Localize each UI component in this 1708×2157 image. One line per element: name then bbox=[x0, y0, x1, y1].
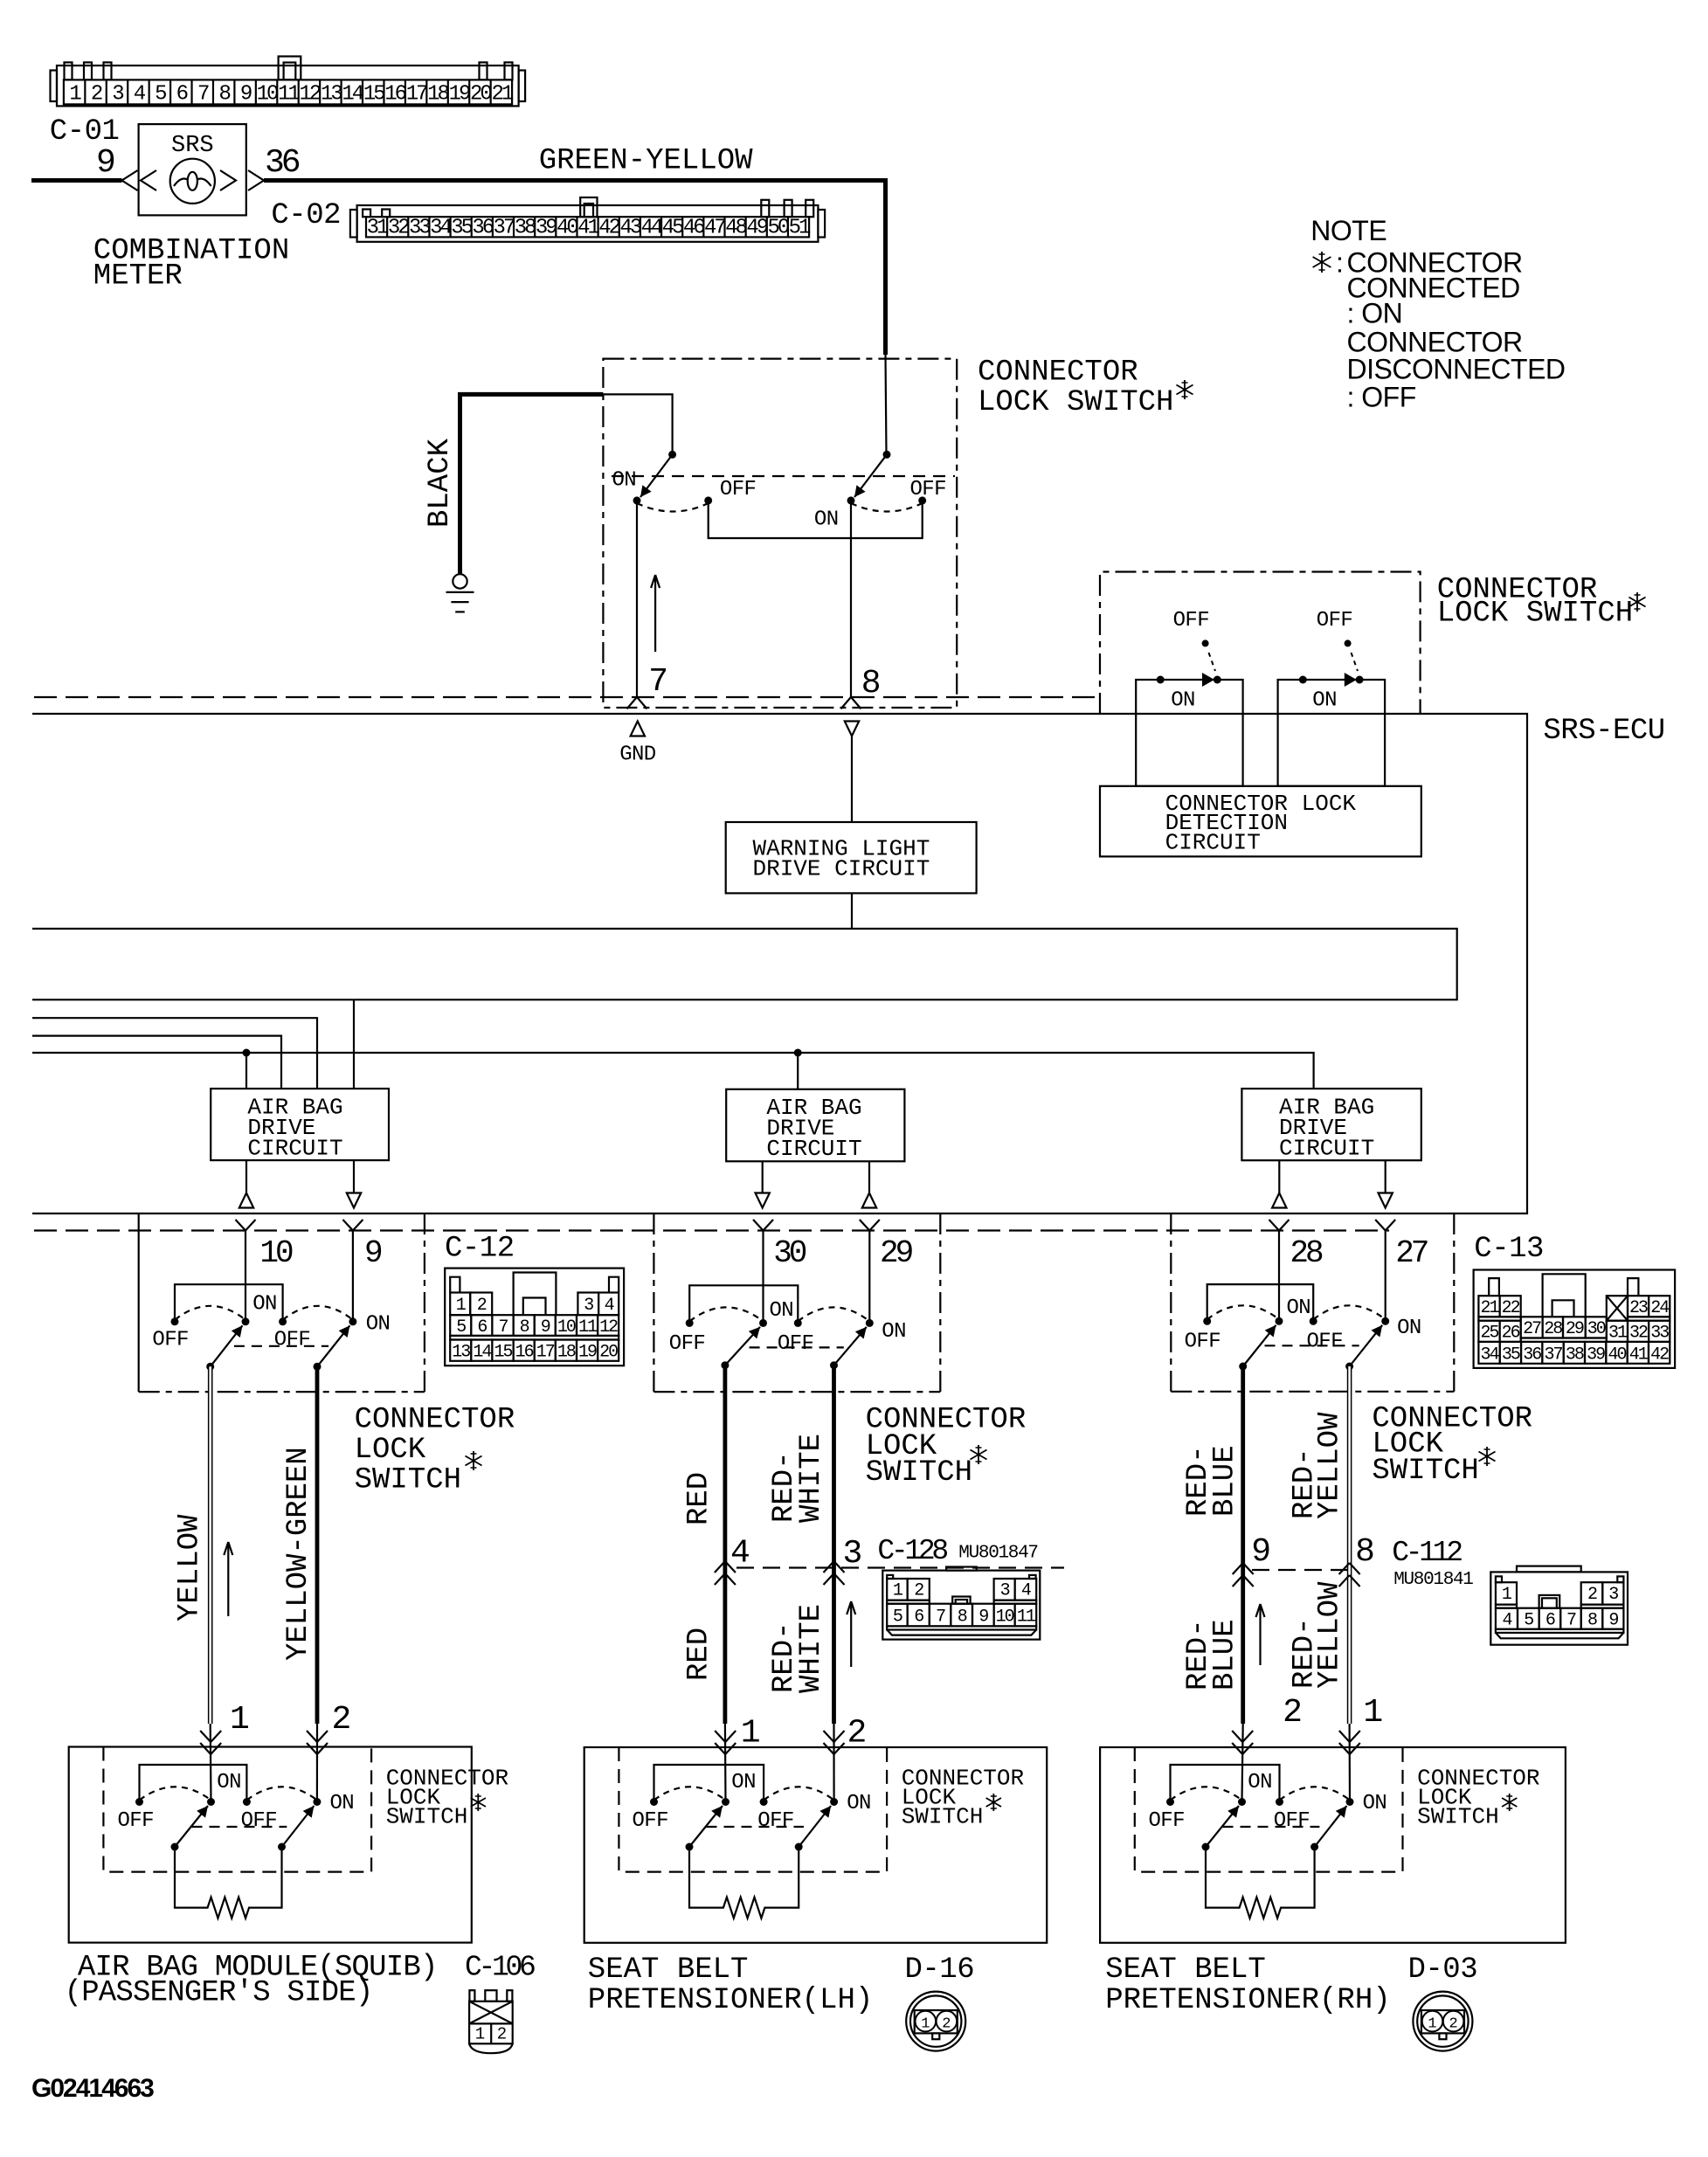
svg-text:1: 1 bbox=[1363, 1694, 1383, 1732]
svg-text:C-13: C-13 bbox=[1474, 1233, 1544, 1266]
pin 28 fork (SRS-ECU bottom) bbox=[1269, 1220, 1280, 1231]
pin 9 fork (SRS-ECU bottom) bbox=[342, 1220, 353, 1231]
OFF contact dots (C-128) bbox=[686, 1319, 694, 1327]
switch ON contact pin7 side bbox=[633, 496, 641, 504]
svg-text:2: 2 bbox=[477, 1296, 487, 1316]
svg-text:20: 20 bbox=[599, 1343, 618, 1363]
svg-text:22: 22 bbox=[1502, 1298, 1520, 1318]
svg-text:17: 17 bbox=[536, 1343, 555, 1363]
direction arrow (C-128 column) bbox=[850, 1601, 852, 1667]
switch contact (pin7 side) upper dot bbox=[668, 451, 676, 459]
OFF contact 1 (air bag module squib) bbox=[135, 1798, 143, 1806]
air bag drive circuit box 2 bbox=[726, 1089, 904, 1162]
svg-text:SEAT BELT: SEAT BELT bbox=[1105, 1953, 1266, 1987]
dashed arc 2 (air bag module squib) bbox=[246, 1787, 317, 1800]
svg-text:2: 2 bbox=[914, 1581, 923, 1601]
asterisk (top middle lock switch) bbox=[1184, 380, 1186, 399]
bus band bbox=[32, 929, 1457, 999]
svg-text:LOCK: LOCK bbox=[355, 1434, 426, 1467]
svg-text:10: 10 bbox=[996, 1607, 1014, 1628]
svg-text:C-128: C-128 bbox=[877, 1535, 947, 1567]
svg-text:7: 7 bbox=[936, 1607, 945, 1628]
break chevrons wire RED-YELLOW at C-112 bbox=[1339, 1563, 1350, 1574]
wire RED-BLUE thin tail bbox=[1242, 1724, 1243, 1802]
triangle GND marker bbox=[631, 722, 645, 736]
switch blade 1 (seat belt pretensioner LH) bbox=[686, 1843, 694, 1851]
svg-text:42: 42 bbox=[1650, 1345, 1669, 1365]
wire linking OFF contacts (C-12) bbox=[175, 1284, 283, 1322]
switch blade 2 (C-12) bbox=[314, 1363, 322, 1371]
svg-text:OFF: OFF bbox=[669, 1332, 705, 1356]
air bag 1 output left (triangle up) bbox=[245, 1160, 247, 1193]
svg-text:ON: ON bbox=[1248, 1771, 1272, 1794]
svg-text:3: 3 bbox=[584, 1296, 593, 1316]
svg-text:RED: RED bbox=[683, 1628, 716, 1681]
switch blade 2 (seat belt pretensioner RH) bbox=[1310, 1843, 1318, 1851]
svg-text:OFF: OFF bbox=[1307, 1331, 1343, 1354]
arrowheads wire RED-YELLOW into pretensioner RH bbox=[1339, 1731, 1350, 1742]
svg-text:16: 16 bbox=[384, 83, 405, 107]
svg-text:DISCONNECTED: DISCONNECTED bbox=[1347, 354, 1566, 385]
wire pin to ON contact 2 (C-12) bbox=[352, 1231, 354, 1322]
svg-text:OFF: OFF bbox=[152, 1329, 188, 1352]
svg-text:27: 27 bbox=[1523, 1319, 1541, 1339]
svg-text:3: 3 bbox=[1608, 1585, 1618, 1605]
switch blade 2 (C-13) bbox=[1345, 1363, 1353, 1371]
OFF contact 2 (air bag module squib) bbox=[243, 1798, 251, 1806]
svg-text:8: 8 bbox=[1355, 1533, 1375, 1571]
pin 8 fork bbox=[841, 697, 852, 709]
svg-text:ON: ON bbox=[770, 1299, 794, 1323]
svg-text:PRETENSIONER(RH): PRETENSIONER(RH) bbox=[1105, 1984, 1390, 2017]
dashed arc 2 (C-12) bbox=[283, 1306, 353, 1320]
arrowheads wire RED-BLUE into pretensioner RH bbox=[1232, 1731, 1242, 1742]
svg-text:CONNECTOR: CONNECTOR bbox=[355, 1404, 515, 1437]
switch ON contact pin8 side bbox=[847, 496, 855, 504]
connector C-106 pin diagram bbox=[469, 1990, 513, 2053]
dashed harness boundary line (upper) bbox=[34, 696, 1100, 698]
svg-text:OFF: OFF bbox=[778, 1332, 813, 1356]
ON contact 1 (air bag module squib) bbox=[207, 1798, 215, 1806]
dashed segment (air bag module squib) bbox=[192, 1826, 287, 1828]
svg-text:OFF: OFF bbox=[1274, 1809, 1310, 1833]
wire pin to ON contact 2 (C-128) bbox=[868, 1231, 870, 1324]
svg-text:27: 27 bbox=[1395, 1235, 1428, 1271]
pin 10 fork (SRS-ECU bottom) bbox=[236, 1220, 246, 1231]
svg-text:YELLOW: YELLOW bbox=[174, 1514, 207, 1621]
air bag drive circuit box 1 bbox=[211, 1089, 389, 1160]
svg-text:OFF: OFF bbox=[241, 1809, 277, 1833]
svg-text:47: 47 bbox=[704, 217, 725, 240]
svg-text:5: 5 bbox=[456, 1317, 466, 1338]
svg-text:49: 49 bbox=[746, 217, 767, 240]
svg-text:9: 9 bbox=[1251, 1533, 1271, 1571]
dashed arc 2 (seat belt pretensioner LH) bbox=[764, 1787, 834, 1800]
svg-text:10: 10 bbox=[257, 83, 278, 107]
OFF contact 1 (seat belt pretensioner LH) bbox=[650, 1798, 658, 1806]
bus wire 2 bbox=[32, 1018, 317, 1089]
svg-text:4: 4 bbox=[1021, 1581, 1031, 1601]
svg-text::: : bbox=[1336, 247, 1344, 279]
connector lock switch box (C-128) bbox=[653, 1213, 654, 1392]
svg-text:2: 2 bbox=[497, 2025, 507, 2044]
wire linking OFF contacts (seat belt pretensioner RH) bbox=[1171, 1765, 1280, 1802]
svg-text:OFF: OFF bbox=[633, 1809, 668, 1833]
svg-text:46: 46 bbox=[683, 217, 704, 240]
svg-text:30: 30 bbox=[1587, 1319, 1606, 1339]
svg-text:10: 10 bbox=[259, 1235, 293, 1271]
svg-text:1: 1 bbox=[1428, 2016, 1436, 2033]
wire warning light circuit to bus bbox=[851, 893, 853, 929]
air bag 3 output right (triangle down) bbox=[1385, 1160, 1386, 1193]
switch blade 1 (C-128) bbox=[721, 1361, 729, 1369]
svg-text:38: 38 bbox=[1566, 1345, 1584, 1365]
asterisk (seat belt pretensioner LH lock switch) bbox=[992, 1794, 994, 1811]
svg-text:35: 35 bbox=[1502, 1345, 1520, 1365]
wire RED (thick) upper bbox=[723, 1365, 728, 1724]
air bag 3 output left (triangle up) bbox=[1278, 1160, 1280, 1193]
svg-text:: ON: : ON bbox=[1347, 298, 1403, 329]
svg-text:WHITE: WHITE bbox=[795, 1604, 828, 1693]
dashed segment (C-13) bbox=[1265, 1345, 1359, 1346]
svg-text:ON: ON bbox=[330, 1792, 355, 1815]
svg-text:9: 9 bbox=[96, 144, 116, 182]
svg-text:CIRCUIT: CIRCUIT bbox=[766, 1136, 861, 1162]
svg-text:11: 11 bbox=[578, 1317, 598, 1338]
wire RED-WHITE thin tail bbox=[833, 1724, 834, 1802]
svg-text:CIRCUIT: CIRCUIT bbox=[1279, 1136, 1374, 1162]
pin 7 fork bbox=[627, 697, 638, 709]
bus wire 3 bbox=[32, 1036, 281, 1089]
wire from black wire to lock switch contact bbox=[603, 394, 672, 454]
svg-text:OFF: OFF bbox=[274, 1329, 310, 1352]
switch blade pin8 side bbox=[854, 454, 887, 497]
svg-text:D-03: D-03 bbox=[1408, 1953, 1478, 1987]
svg-text:8: 8 bbox=[218, 83, 230, 107]
switch A contacts bbox=[1157, 676, 1165, 684]
svg-text:33: 33 bbox=[409, 217, 430, 240]
svg-text:3: 3 bbox=[1000, 1581, 1010, 1601]
svg-text:39: 39 bbox=[536, 217, 557, 240]
svg-text:34: 34 bbox=[430, 217, 452, 240]
lock detection sub-box B bbox=[1278, 680, 1386, 786]
dashed harness line at C-128 bbox=[736, 1566, 1064, 1568]
svg-text:25: 25 bbox=[1480, 1324, 1498, 1344]
svg-text:4: 4 bbox=[605, 1296, 614, 1316]
triangle pin 8 output marker bbox=[845, 722, 859, 736]
svg-text:ON: ON bbox=[252, 1293, 277, 1317]
svg-text:2: 2 bbox=[1587, 1585, 1597, 1605]
svg-text:SWITCH: SWITCH bbox=[1372, 1455, 1478, 1488]
dashed arc pin7 switch bbox=[637, 503, 709, 512]
dashed arc 1 (C-13) bbox=[1207, 1305, 1279, 1319]
box seat belt pretensioner LH bbox=[584, 1747, 1047, 1943]
svg-text:OFF: OFF bbox=[1317, 609, 1352, 633]
wire YELLOW-GREEN (thick) bbox=[315, 1366, 320, 1724]
arrowheads at SRS lamp right bbox=[220, 170, 236, 190]
connector C-01 (combination meter, pins 1-21) bbox=[51, 57, 526, 107]
dashed arc 2 (C-13) bbox=[1313, 1305, 1386, 1319]
svg-text:15: 15 bbox=[494, 1343, 512, 1363]
svg-text:34: 34 bbox=[1481, 1345, 1499, 1365]
svg-text:9: 9 bbox=[240, 83, 252, 107]
svg-text:ON: ON bbox=[366, 1313, 391, 1337]
break chevrons wire RED-WHITE at C-128 bbox=[824, 1561, 834, 1573]
svg-text:18: 18 bbox=[557, 1343, 576, 1363]
svg-text:29: 29 bbox=[880, 1235, 913, 1271]
wire RED-YELLOW thin tail bbox=[1348, 1724, 1351, 1802]
svg-text:SWITCH: SWITCH bbox=[1417, 1804, 1499, 1830]
svg-text:6: 6 bbox=[914, 1607, 923, 1628]
svg-text:13: 13 bbox=[452, 1343, 470, 1363]
svg-text:44: 44 bbox=[641, 217, 663, 240]
connector C-112 pin diagram bbox=[1490, 1566, 1628, 1645]
svg-text:ON: ON bbox=[1312, 689, 1337, 713]
connector C-12 pin diagram bbox=[445, 1269, 624, 1366]
svg-text:13: 13 bbox=[321, 83, 342, 107]
wire YELLOW thin tail bbox=[210, 1724, 212, 1802]
svg-text:48: 48 bbox=[725, 217, 746, 240]
arrowheads wire YELLOW into air bag module bbox=[200, 1731, 211, 1742]
svg-text:3: 3 bbox=[112, 83, 123, 107]
svg-text:8: 8 bbox=[958, 1607, 967, 1628]
connector lock switch box (SRS-ECU side) bbox=[1100, 572, 1421, 715]
wire ON contact to pin 8 bbox=[850, 501, 852, 697]
svg-text:5: 5 bbox=[893, 1607, 902, 1628]
svg-text:21: 21 bbox=[1480, 1298, 1499, 1318]
svg-text:6: 6 bbox=[1545, 1611, 1555, 1631]
switch A OFF contact bbox=[1202, 639, 1209, 646]
wire RED-YELLOW (tube style) bbox=[1347, 1366, 1352, 1724]
svg-text:28: 28 bbox=[1544, 1319, 1562, 1339]
svg-text:28: 28 bbox=[1290, 1235, 1323, 1271]
svg-text:SWITCH: SWITCH bbox=[355, 1464, 461, 1497]
wire BLACK (thick) to ground bbox=[460, 394, 604, 573]
wire RED thin tail bbox=[724, 1724, 727, 1802]
break chevrons wire RED at C-128 bbox=[715, 1561, 725, 1573]
arrowheads at SRS lamp left bbox=[122, 170, 138, 190]
svg-text:41: 41 bbox=[577, 217, 599, 240]
svg-text:(PASSENGER'S SIDE): (PASSENGER'S SIDE) bbox=[65, 1977, 373, 2010]
air bag 2 output left (triangle down) bbox=[762, 1161, 764, 1193]
svg-text:9: 9 bbox=[978, 1607, 988, 1628]
pin 29 fork (SRS-ECU bottom) bbox=[860, 1220, 870, 1231]
svg-text:G02414663: G02414663 bbox=[31, 2074, 154, 2103]
svg-text:WHITE: WHITE bbox=[795, 1434, 828, 1523]
dashed harness boundary line (lower) bbox=[34, 1229, 1389, 1231]
svg-text:OFF: OFF bbox=[118, 1809, 154, 1833]
SRS-ECU box bbox=[32, 714, 1527, 1213]
svg-text:SRS-ECU: SRS-ECU bbox=[1543, 715, 1664, 748]
direction arrow (C-112 column) bbox=[1259, 1604, 1261, 1665]
svg-text:31: 31 bbox=[367, 217, 389, 240]
svg-text:LOCK SWITCH: LOCK SWITCH bbox=[978, 386, 1173, 419]
svg-text:4: 4 bbox=[730, 1535, 750, 1573]
dashed arc 1 (C-12) bbox=[175, 1306, 245, 1320]
warning light drive circuit box bbox=[726, 822, 977, 893]
svg-text:RED: RED bbox=[683, 1472, 716, 1525]
note block bbox=[1310, 215, 1386, 246]
svg-text:GREEN-YELLOW: GREEN-YELLOW bbox=[539, 145, 753, 178]
svg-text:6: 6 bbox=[176, 83, 188, 107]
inner dashed box (air bag module squib) bbox=[103, 1747, 371, 1872]
svg-text:: OFF: : OFF bbox=[1347, 382, 1416, 413]
svg-text:20: 20 bbox=[470, 83, 491, 107]
wire pin to ON contact 1 (C-13) bbox=[1278, 1231, 1280, 1322]
dashed arc 1 (seat belt pretensioner RH) bbox=[1171, 1787, 1242, 1800]
ground symbol bbox=[453, 574, 467, 588]
dashed arc 1 (seat belt pretensioner LH) bbox=[654, 1787, 726, 1800]
svg-text:NOTE: NOTE bbox=[1310, 215, 1386, 246]
svg-text:11: 11 bbox=[278, 83, 300, 107]
wire linking OFF contacts bbox=[709, 501, 923, 538]
wire linking OFF contacts (seat belt pretensioner LH) bbox=[654, 1765, 764, 1802]
svg-text:2: 2 bbox=[1449, 2016, 1457, 2033]
svg-text:19: 19 bbox=[449, 83, 470, 107]
svg-text:9: 9 bbox=[541, 1317, 550, 1338]
svg-text:51: 51 bbox=[789, 217, 811, 240]
svg-text:24: 24 bbox=[1650, 1298, 1669, 1318]
switch contact (pin8 side) upper dot bbox=[883, 451, 891, 459]
svg-text:7: 7 bbox=[197, 83, 209, 107]
connector C-02 (combination meter, pins 31-51) bbox=[350, 197, 825, 242]
wire GREEN-YELLOW thick run to connector lock switch bbox=[264, 181, 886, 356]
svg-text:36: 36 bbox=[265, 144, 300, 182]
squib resistor (air bag module squib) bbox=[175, 1847, 282, 1918]
svg-text:42: 42 bbox=[598, 217, 619, 240]
connector C-13 pin diagram bbox=[1474, 1270, 1676, 1368]
note text bbox=[1336, 247, 1566, 413]
pin 27 fork (SRS-ECU bottom) bbox=[1375, 1220, 1386, 1231]
svg-text:21: 21 bbox=[491, 83, 513, 107]
SRS warning lamp bbox=[170, 159, 215, 204]
svg-text:11: 11 bbox=[1017, 1607, 1036, 1628]
svg-text:2: 2 bbox=[91, 83, 102, 107]
wire RED-WHITE (thick) bbox=[832, 1365, 836, 1724]
dashed arc 2 (seat belt pretensioner RH) bbox=[1280, 1787, 1351, 1800]
wire pin to ON contact 1 (C-128) bbox=[762, 1231, 764, 1324]
svg-text:C-112: C-112 bbox=[1392, 1537, 1462, 1569]
svg-text:15: 15 bbox=[363, 83, 384, 107]
svg-text:SWITCH: SWITCH bbox=[866, 1456, 972, 1490]
svg-text:1: 1 bbox=[475, 2025, 485, 2044]
switch blade 2 (C-128) bbox=[830, 1361, 838, 1369]
current direction arrow bbox=[654, 575, 656, 652]
svg-text:C-12: C-12 bbox=[445, 1233, 515, 1266]
svg-text:DRIVE CIRCUIT: DRIVE CIRCUIT bbox=[753, 856, 930, 882]
svg-text:GND: GND bbox=[619, 743, 656, 767]
air bag drive circuit box 3 bbox=[1241, 1089, 1421, 1160]
svg-text:LOCK SWITCH: LOCK SWITCH bbox=[1437, 598, 1633, 631]
wire linking OFF contacts (air bag module squib) bbox=[140, 1765, 247, 1802]
svg-text:37: 37 bbox=[1545, 1345, 1563, 1365]
svg-text:SWITCH: SWITCH bbox=[386, 1804, 468, 1830]
svg-text:12: 12 bbox=[300, 83, 321, 107]
switch B contacts bbox=[1299, 676, 1307, 684]
switch OFF contact pin7 side bbox=[704, 496, 712, 504]
svg-text:40: 40 bbox=[1608, 1345, 1626, 1365]
switch blade 1 (air bag module squib) bbox=[171, 1843, 179, 1851]
svg-text:33: 33 bbox=[1650, 1324, 1669, 1344]
svg-text:9: 9 bbox=[1608, 1611, 1618, 1631]
OFF contact 2 (seat belt pretensioner RH) bbox=[1276, 1798, 1283, 1806]
svg-text:32: 32 bbox=[1629, 1324, 1648, 1344]
ON contact 1 (seat belt pretensioner RH) bbox=[1238, 1798, 1246, 1806]
wire linking OFF contacts (C-13) bbox=[1207, 1284, 1314, 1321]
asterisk (air bag module squib lock switch) bbox=[477, 1794, 479, 1811]
connector lock detection circuit box bbox=[1100, 786, 1421, 857]
wire GREEN-YELLOW thin continuation bbox=[886, 355, 887, 454]
asterisk (C-13 lock switch) bbox=[1486, 1447, 1488, 1466]
svg-text:14: 14 bbox=[342, 83, 363, 107]
svg-text:30: 30 bbox=[773, 1235, 806, 1271]
connector lock switch box (C-13) bbox=[1170, 1213, 1172, 1392]
ON contact 2 (seat belt pretensioner LH) bbox=[830, 1798, 838, 1806]
svg-text:C-106: C-106 bbox=[465, 1952, 535, 1984]
svg-text:29: 29 bbox=[1566, 1319, 1584, 1339]
svg-text:35: 35 bbox=[451, 217, 472, 240]
svg-text:BLUE: BLUE bbox=[1209, 1445, 1242, 1517]
svg-text:MU801841: MU801841 bbox=[1393, 1570, 1473, 1590]
wire pin to ON contact 2 (C-13) bbox=[1385, 1231, 1386, 1322]
tap from bus band to air bag drive circuit 1 bbox=[353, 999, 355, 1089]
wire YELLOW (tube style) bbox=[208, 1366, 213, 1724]
svg-text:7: 7 bbox=[1566, 1611, 1576, 1631]
svg-text:ON: ON bbox=[217, 1771, 241, 1794]
air bag 2 output right (triangle up) bbox=[868, 1161, 870, 1193]
SRS warning lamp box bbox=[139, 124, 246, 215]
svg-text:36: 36 bbox=[472, 217, 493, 240]
svg-text:ON: ON bbox=[731, 1771, 756, 1794]
squib resistor (seat belt pretensioner RH) bbox=[1206, 1847, 1315, 1918]
svg-text:19: 19 bbox=[578, 1343, 597, 1363]
svg-text:41: 41 bbox=[1629, 1345, 1649, 1365]
svg-text:OFF: OFF bbox=[1173, 609, 1209, 633]
ON contact dots (C-12) bbox=[242, 1317, 250, 1325]
svg-text:8: 8 bbox=[1587, 1611, 1597, 1631]
svg-text:CONNECTOR: CONNECTOR bbox=[978, 356, 1138, 390]
svg-text:C-02: C-02 bbox=[271, 199, 341, 232]
ON contact 2 (seat belt pretensioner RH) bbox=[1346, 1798, 1354, 1806]
connector D-03 pin diagram bbox=[1413, 1992, 1472, 2051]
svg-text:SEAT BELT: SEAT BELT bbox=[588, 1953, 749, 1987]
asterisk (C-12 lock switch) bbox=[473, 1451, 474, 1470]
wire pin to ON contact 1 (C-12) bbox=[245, 1231, 246, 1322]
lock detection sub-box A bbox=[1136, 680, 1242, 786]
svg-text:40: 40 bbox=[557, 217, 577, 240]
svg-text:ON: ON bbox=[1363, 1792, 1387, 1815]
svg-text:7: 7 bbox=[498, 1317, 508, 1338]
OFF contact 1 (seat belt pretensioner RH) bbox=[1166, 1798, 1174, 1806]
ON contact dots (C-13) bbox=[1276, 1317, 1283, 1325]
svg-text:45: 45 bbox=[662, 217, 683, 240]
svg-text:ON: ON bbox=[1287, 1296, 1311, 1320]
break chevrons wire RED-BLUE at C-112 bbox=[1233, 1563, 1243, 1574]
note asterisk symbol bbox=[1321, 252, 1323, 273]
bus wire 4 (squib drive line) bbox=[32, 1053, 1314, 1089]
svg-text:31: 31 bbox=[1608, 1324, 1628, 1344]
svg-text:PRETENSIONER(LH): PRETENSIONER(LH) bbox=[588, 1984, 873, 2017]
svg-text:YELLOW-GREEN: YELLOW-GREEN bbox=[282, 1447, 315, 1661]
svg-text:OFF: OFF bbox=[757, 1809, 793, 1833]
svg-text:SWITCH: SWITCH bbox=[902, 1804, 984, 1830]
svg-text:23: 23 bbox=[1629, 1298, 1648, 1318]
junction dot and tap to air bag drive circuit 2 bbox=[794, 1049, 802, 1057]
connector lock switch box (C-12) bbox=[138, 1213, 140, 1392]
svg-text:26: 26 bbox=[1502, 1324, 1520, 1344]
junction dot and tap to air bag drive circuit 1 bbox=[243, 1049, 251, 1057]
dashed segment (C-128) bbox=[750, 1346, 844, 1348]
